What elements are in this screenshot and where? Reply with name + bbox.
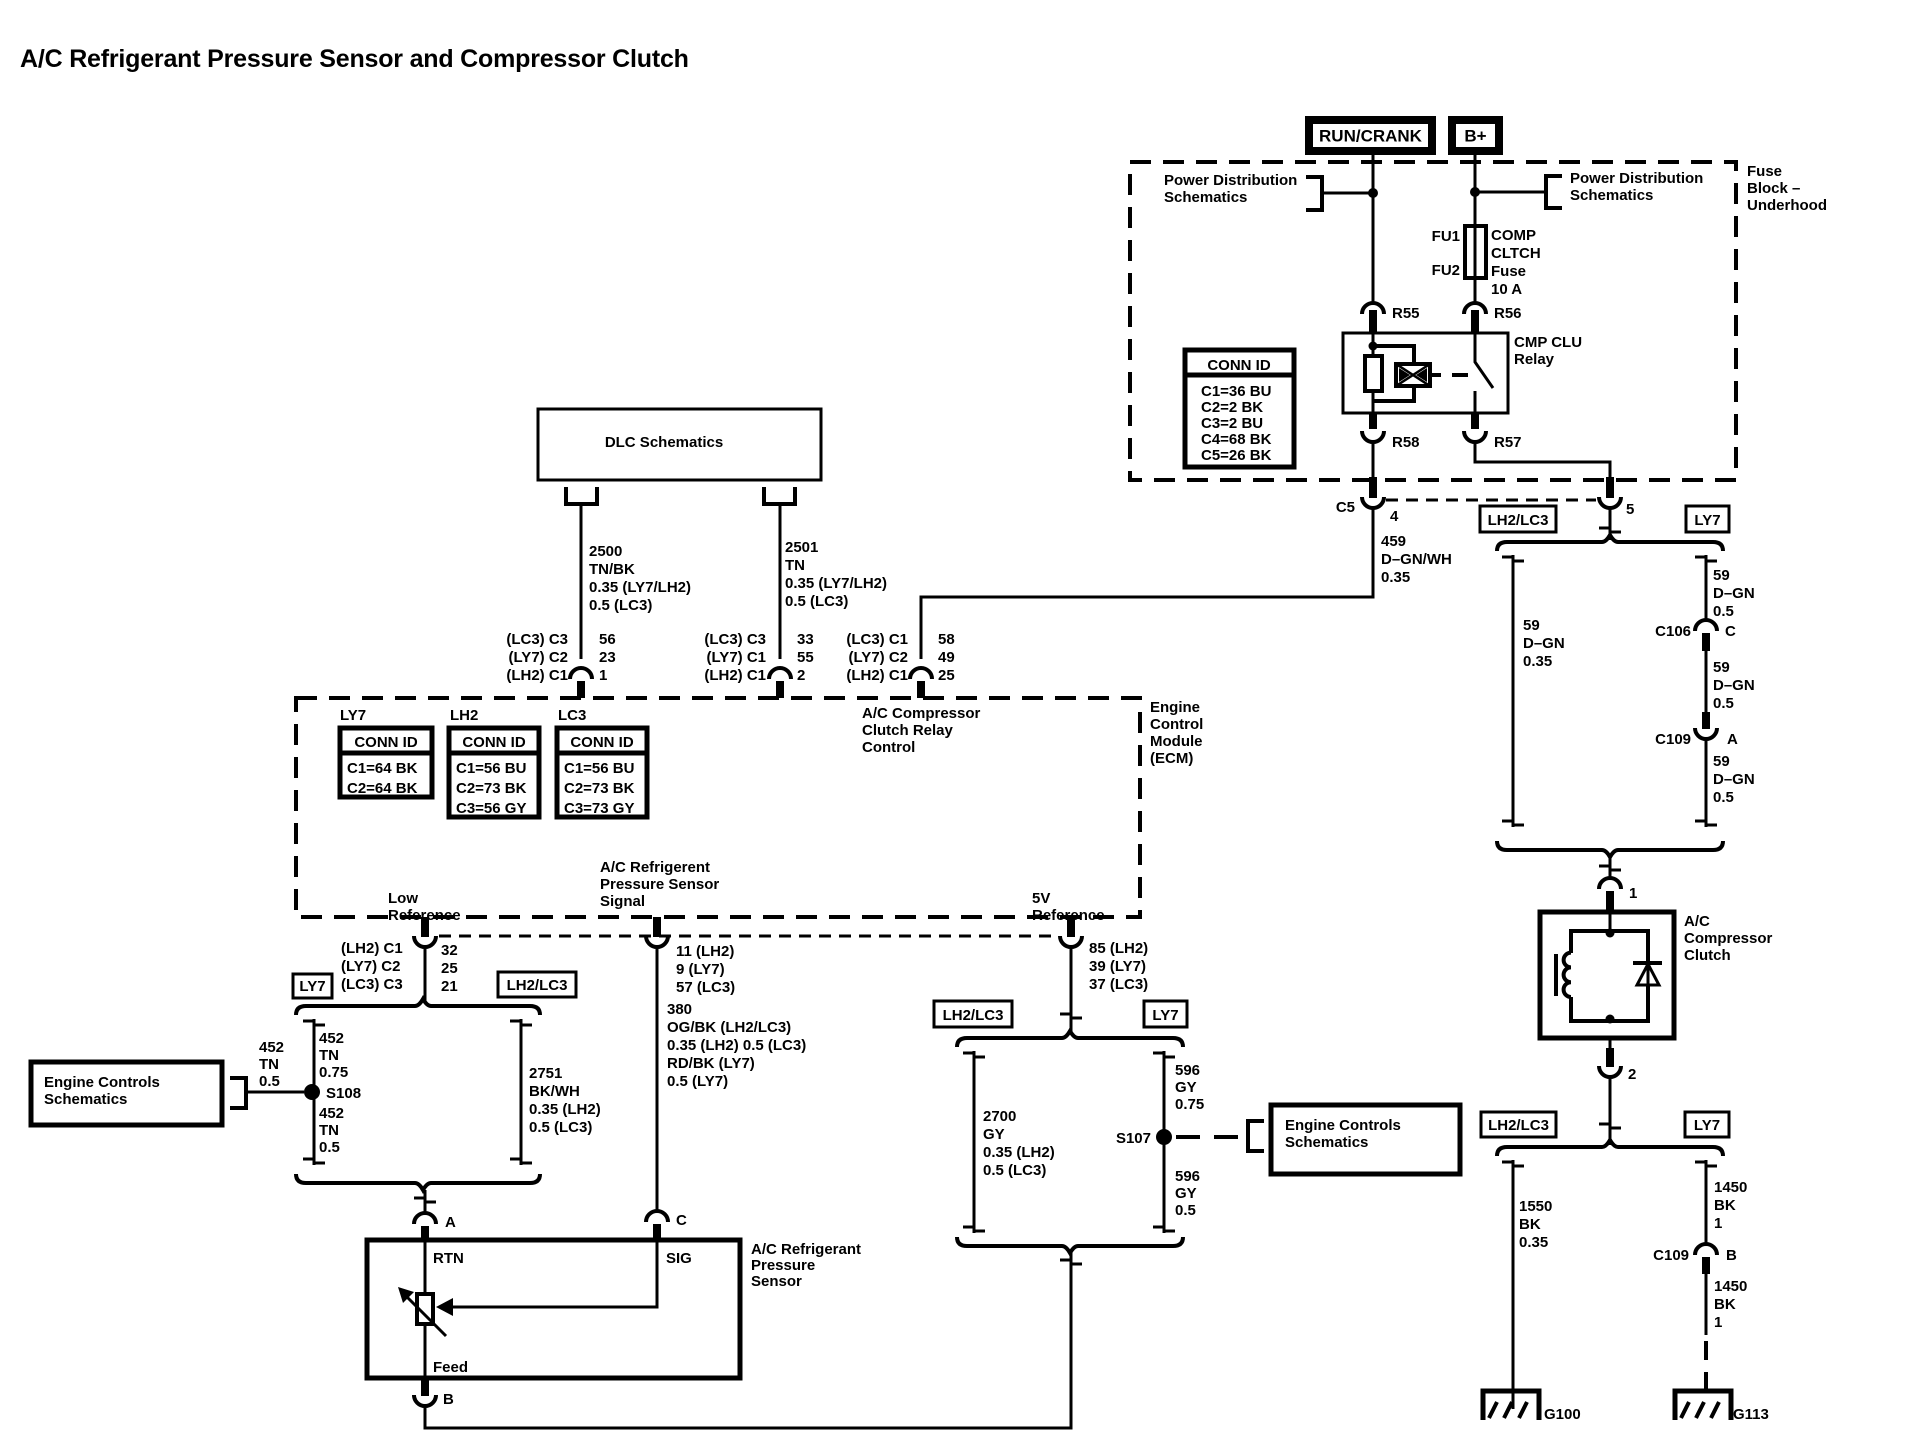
svg-text:Clutch Relay: Clutch Relay	[862, 722, 954, 739]
connector clutch pin 2	[1599, 1048, 1636, 1083]
CONN ID table LY7	[340, 728, 432, 797]
svg-text:D–GN: D–GN	[1713, 771, 1755, 788]
svg-text:Module: Module	[1150, 733, 1203, 750]
svg-text:BK/WH: BK/WH	[529, 1083, 580, 1100]
svg-text:C5=26 BK: C5=26 BK	[1201, 447, 1272, 464]
svg-text:596: 596	[1175, 1062, 1200, 1079]
svg-text:C106: C106	[1655, 623, 1691, 640]
svg-text:C109: C109	[1655, 731, 1691, 748]
label 59 D-GN 0.35	[1523, 617, 1565, 670]
label 1450 BK 1 (upper)	[1714, 1179, 1747, 1232]
svg-text:A/C Compressor: A/C Compressor	[862, 705, 981, 722]
wire 380 signal	[656, 947, 659, 1210]
svg-text:37 (LC3): 37 (LC3)	[1089, 976, 1148, 993]
svg-text:1550: 1550	[1519, 1198, 1552, 1215]
svg-text:Feed: Feed	[433, 1359, 468, 1376]
svg-text:RUN/CRANK: RUN/CRANK	[1319, 127, 1423, 146]
DLC Schematics box	[538, 409, 821, 480]
svg-text:1: 1	[1714, 1314, 1722, 1331]
label 596 GY 0.75	[1175, 1062, 1204, 1113]
squiggle below 2700 brace	[1060, 1260, 1082, 1264]
svg-text:21: 21	[441, 978, 458, 995]
connector C5 boundary dashed line	[1386, 499, 1596, 502]
wire RTN	[424, 1240, 427, 1294]
wire R58 to C5	[1372, 442, 1375, 477]
svg-text:LH2/LC3: LH2/LC3	[1488, 512, 1549, 529]
svg-text:C2=64 BK: C2=64 BK	[347, 780, 418, 797]
wire low ref to brace	[424, 947, 427, 1003]
label Power Distribution Schematics (left)	[1164, 172, 1297, 206]
svg-text:0.35 (LH2): 0.35 (LH2)	[983, 1144, 1055, 1161]
svg-text:A: A	[445, 1214, 456, 1231]
svg-text:2: 2	[1628, 1066, 1636, 1083]
svg-text:Control: Control	[862, 739, 915, 756]
svg-text:GY: GY	[1175, 1079, 1197, 1096]
svg-text:C5: C5	[1336, 499, 1355, 516]
connector R56	[1464, 303, 1522, 333]
svg-text:39 (LY7): 39 (LY7)	[1089, 958, 1146, 975]
svg-text:D–GN/WH: D–GN/WH	[1381, 551, 1452, 568]
junction on B+ feed	[1470, 187, 1480, 197]
svg-text:0.5 (LY7): 0.5 (LY7)	[667, 1073, 728, 1090]
svg-text:55: 55	[797, 649, 814, 666]
svg-text:(ECM): (ECM)	[1150, 750, 1193, 767]
ECM pin group 3 labels	[846, 631, 954, 684]
svg-text:DLC Schematics: DLC Schematics	[605, 434, 723, 451]
diode in clutch	[1633, 963, 1662, 985]
wire PDS-left to RUN/CRANK feed	[1322, 192, 1373, 195]
connector ECM pin 1	[570, 668, 592, 698]
wire 2751 BK/WH branch	[510, 1019, 532, 1165]
svg-text:1: 1	[1714, 1215, 1722, 1232]
svg-text:Signal: Signal	[600, 893, 645, 910]
label 452 TN 0.5 (left of splice)	[259, 1039, 284, 1090]
svg-text:5: 5	[1626, 501, 1634, 518]
resistor in relay	[1365, 356, 1382, 391]
svg-text:Schematics: Schematics	[1285, 1134, 1368, 1151]
connector clutch pin 1	[1599, 878, 1637, 912]
svg-text:C: C	[676, 1212, 687, 1229]
label 1450 BK 1 (lower)	[1714, 1278, 1747, 1331]
svg-text:0.5 (LC3): 0.5 (LC3)	[983, 1162, 1046, 1179]
label A/C Refrigerant Pressure Sensor	[751, 1241, 861, 1290]
relay coil-to-switch dashed link	[1432, 373, 1468, 377]
relay switch	[1475, 333, 1493, 413]
label Engine Control Module (ECM)	[1150, 699, 1203, 767]
junction relay coil top	[1369, 342, 1378, 351]
svg-text:C2=73 BK: C2=73 BK	[564, 780, 635, 797]
bracket to Power Distribution (right)	[1546, 176, 1562, 208]
wire Feed	[424, 1324, 427, 1378]
bracket DLC left tab	[566, 487, 597, 504]
svg-text:(LC3) C3: (LC3) C3	[341, 976, 403, 993]
svg-text:49: 49	[938, 649, 955, 666]
svg-text:2751: 2751	[529, 1065, 562, 1082]
label 459 D-GN/WH 0.35	[1381, 533, 1452, 586]
svg-text:1: 1	[599, 667, 607, 684]
ground G113	[1675, 1391, 1769, 1423]
svg-text:A: A	[1727, 731, 1738, 748]
wire pin5 to harness brace	[1609, 508, 1612, 540]
svg-text:GY: GY	[983, 1126, 1005, 1143]
svg-text:23: 23	[599, 649, 616, 666]
bracket Engine Controls (left)	[230, 1078, 246, 1108]
svg-text:BK: BK	[1519, 1216, 1541, 1233]
svg-text:C4=68 BK: C4=68 BK	[1201, 431, 1272, 448]
svg-text:OG/BK (LH2/LC3): OG/BK (LH2/LC3)	[667, 1019, 791, 1036]
label 452 TN 0.75	[319, 1030, 348, 1081]
svg-text:Low: Low	[388, 890, 418, 907]
svg-text:Schematics: Schematics	[1164, 189, 1247, 206]
svg-text:(LH2) C1: (LH2) C1	[341, 940, 403, 957]
wire 59 D-GN 0.5 (lower)	[1695, 739, 1717, 827]
label Fuse Block Underhood	[1747, 163, 1827, 214]
svg-text:2501: 2501	[785, 539, 818, 556]
CONN ID table (fuse block)	[1185, 350, 1294, 467]
label 2501 TN	[785, 539, 887, 610]
ECM dashed box	[296, 698, 1140, 917]
ground G100	[1483, 1391, 1581, 1423]
harness brace (2700 top)	[957, 1031, 1183, 1047]
svg-text:452: 452	[319, 1030, 344, 1047]
connector C5 pin 4	[1336, 477, 1399, 525]
node RUN/CRANK	[1305, 116, 1436, 155]
label 1550 BK 0.35	[1519, 1198, 1552, 1251]
svg-text:BK: BK	[1714, 1197, 1736, 1214]
svg-text:C1=56 BU: C1=56 BU	[456, 760, 526, 777]
sensor element (variable)	[398, 1287, 446, 1336]
svg-text:56: 56	[599, 631, 616, 648]
splice S107	[1116, 1129, 1172, 1147]
svg-text:2500: 2500	[589, 543, 622, 560]
svg-text:452: 452	[319, 1105, 344, 1122]
svg-text:452: 452	[259, 1039, 284, 1056]
svg-text:33: 33	[797, 631, 814, 648]
connector sensor pin B	[414, 1378, 454, 1408]
svg-text:459: 459	[1381, 533, 1406, 550]
svg-text:B+: B+	[1464, 127, 1486, 146]
svg-text:A/C Refrigerent: A/C Refrigerent	[600, 859, 710, 876]
harness brace (452 top)	[296, 999, 540, 1015]
svg-text:TN: TN	[785, 557, 805, 574]
label 452 TN 0.5 (below splice)	[319, 1105, 344, 1156]
net label LY7 (middle)	[1144, 1001, 1187, 1027]
svg-text:LC3: LC3	[558, 707, 586, 724]
svg-text:LY7: LY7	[1152, 1007, 1178, 1024]
svg-text:1450: 1450	[1714, 1278, 1747, 1295]
wire R57 elbow to pin5	[1475, 442, 1610, 477]
svg-text:Control: Control	[1150, 716, 1203, 733]
wire SIG with arrow to sensor	[436, 1240, 657, 1316]
wire 459 D-GN/WH	[921, 508, 1373, 659]
svg-text:BK: BK	[1714, 1296, 1736, 1313]
svg-text:R58: R58	[1392, 434, 1420, 451]
connector sensor pin A	[414, 1213, 456, 1240]
svg-text:32: 32	[441, 942, 458, 959]
connector R57	[1464, 413, 1522, 451]
svg-text:0.5: 0.5	[1175, 1202, 1196, 1219]
svg-text:C1=36 BU: C1=36 BU	[1201, 383, 1271, 400]
svg-text:LY7: LY7	[299, 978, 325, 995]
CONN ID table LC3	[557, 728, 647, 817]
svg-text:85 (LH2): 85 (LH2)	[1089, 940, 1148, 957]
clutch coil windings	[1564, 953, 1571, 997]
svg-text:A/C Refrigerant Pressure Senso: A/C Refrigerant Pressure Sensor and Comp…	[20, 45, 689, 73]
harness brace (right top)	[1497, 535, 1723, 551]
ECM pin group 2 labels	[704, 631, 813, 684]
svg-text:9 (LY7): 9 (LY7)	[676, 961, 725, 978]
clutch coil core bar	[1554, 954, 1558, 996]
svg-text:59: 59	[1523, 617, 1540, 634]
svg-text:CMP CLU: CMP CLU	[1514, 334, 1582, 351]
svg-text:A/C Refrigerant: A/C Refrigerant	[751, 1241, 861, 1258]
svg-text:FU2: FU2	[1432, 262, 1460, 279]
svg-text:S107: S107	[1116, 1130, 1151, 1147]
Engine Controls Schematics box (left)	[31, 1062, 222, 1125]
svg-text:0.35: 0.35	[1519, 1234, 1548, 1251]
Engine Controls Schematics box (right)	[1271, 1105, 1460, 1174]
wire 1450 BK 1 (upper)	[1695, 1160, 1717, 1244]
svg-text:CONN ID: CONN ID	[462, 734, 526, 751]
svg-text:TN: TN	[319, 1122, 339, 1139]
svg-text:Schematics: Schematics	[1570, 187, 1653, 204]
svg-text:C3=2 BU: C3=2 BU	[1201, 415, 1263, 432]
connector C109 pin B	[1653, 1244, 1737, 1274]
junction on RUN/CRANK feed	[1368, 188, 1378, 198]
svg-text:Engine Controls: Engine Controls	[44, 1074, 160, 1091]
svg-text:Compressor: Compressor	[1684, 930, 1773, 947]
net label LH2/LC3 (left)	[498, 972, 576, 997]
label 2700 GY	[983, 1108, 1055, 1179]
svg-text:(LH2) C1: (LH2) C1	[704, 667, 766, 684]
svg-text:LY7: LY7	[340, 707, 366, 724]
wire B+ vertical	[1474, 155, 1477, 303]
svg-text:59: 59	[1713, 753, 1730, 770]
svg-text:0.5: 0.5	[259, 1073, 280, 1090]
svg-text:0.5 (LC3): 0.5 (LC3)	[785, 593, 848, 610]
svg-text:R55: R55	[1392, 305, 1420, 322]
svg-text:C1=56 BU: C1=56 BU	[564, 760, 634, 777]
wire B+ to PDS-right	[1475, 191, 1546, 194]
svg-text:RD/BK (LY7): RD/BK (LY7)	[667, 1055, 755, 1072]
svg-text:(LH2) C1: (LH2) C1	[506, 667, 568, 684]
svg-text:596: 596	[1175, 1168, 1200, 1185]
connector ECM low reference pin	[414, 917, 436, 947]
svg-text:0.5: 0.5	[319, 1139, 340, 1156]
svg-text:(LH2) C1: (LH2) C1	[846, 667, 908, 684]
svg-text:(LY7) C2: (LY7) C2	[509, 649, 568, 666]
wire 59 D-GN 0.5 (LY7 upper)	[1695, 555, 1717, 620]
svg-text:LH2/LC3: LH2/LC3	[943, 1007, 1004, 1024]
connector R55	[1362, 303, 1420, 333]
svg-text:0.75: 0.75	[1175, 1096, 1204, 1113]
svg-text:0.5 (LC3): 0.5 (LC3)	[529, 1119, 592, 1136]
wire brace to sensor pin A	[414, 1190, 436, 1212]
harness brace (452 bottom)	[296, 1174, 540, 1190]
net label LH2/LC3 (upper)	[1480, 506, 1556, 532]
svg-text:LY7: LY7	[1694, 1117, 1720, 1134]
wire 1450 BK 1 (lower, part dashed)	[1705, 1274, 1708, 1335]
svg-text:59: 59	[1713, 659, 1730, 676]
svg-text:0.35: 0.35	[1523, 653, 1552, 670]
net label LH2/LC3 (middle)	[934, 1001, 1012, 1027]
svg-text:25: 25	[938, 667, 955, 684]
svg-text:C2=73 BK: C2=73 BK	[456, 780, 527, 797]
svg-text:(LC3) C3: (LC3) C3	[506, 631, 568, 648]
relay coil element (X box)	[1396, 364, 1430, 386]
fuse FU1/FU2 COMP CLTCH 10A	[1432, 226, 1541, 298]
bracket Engine Controls (right)	[1248, 1121, 1264, 1151]
A/C Compressor Clutch box	[1540, 912, 1674, 1038]
svg-text:S108: S108	[326, 1085, 361, 1102]
svg-text:Engine Controls: Engine Controls	[1285, 1117, 1401, 1134]
svg-text:57 (LC3): 57 (LC3)	[676, 979, 735, 996]
ECM low ref pin labels	[341, 940, 458, 995]
svg-text:(LY7) C2: (LY7) C2	[341, 958, 400, 975]
relay coil branch wire	[1372, 333, 1375, 413]
svg-text:SIG: SIG	[666, 1250, 692, 1267]
wire pin B to 2700 bundle	[425, 1253, 1071, 1428]
svg-text:C109: C109	[1653, 1247, 1689, 1264]
svg-text:R56: R56	[1494, 305, 1522, 322]
relay CMP CLU box	[1343, 333, 1508, 413]
svg-text:5V: 5V	[1032, 890, 1050, 907]
wire 1550 BK 0.35	[1502, 1160, 1524, 1409]
svg-text:R57: R57	[1494, 434, 1522, 451]
svg-text:(LY7) C2: (LY7) C2	[849, 649, 908, 666]
harness brace (2700 bottom)	[957, 1237, 1183, 1253]
svg-text:CONN ID: CONN ID	[354, 734, 418, 751]
svg-text:0.5: 0.5	[1713, 695, 1734, 712]
svg-text:Schematics: Schematics	[44, 1091, 127, 1108]
svg-text:380: 380	[667, 1001, 692, 1018]
svg-text:G113: G113	[1733, 1406, 1769, 1423]
label A/C Compressor Clutch	[1684, 913, 1773, 964]
clutch coil loop	[1571, 931, 1648, 1021]
connector ECM pin 25	[910, 668, 932, 698]
harness brace (right bottom)	[1497, 841, 1723, 857]
connector C106 pin C	[1655, 620, 1736, 651]
connector sensor pin C	[646, 1211, 687, 1240]
net label LH2/LC3 (lower right)	[1481, 1112, 1556, 1137]
svg-text:LH2/LC3: LH2/LC3	[507, 977, 568, 994]
svg-text:0.35 (LH2) 0.5 (LC3): 0.35 (LH2) 0.5 (LC3)	[667, 1037, 806, 1054]
svg-text:GY: GY	[1175, 1185, 1197, 1202]
wire bracket to S108	[246, 1091, 304, 1094]
svg-text:Power Distribution: Power Distribution	[1164, 172, 1297, 189]
net label LY7 (lower right)	[1685, 1112, 1729, 1137]
svg-text:(LC3) C1: (LC3) C1	[846, 631, 908, 648]
svg-text:Clutch: Clutch	[1684, 947, 1731, 964]
svg-text:TN: TN	[259, 1056, 279, 1073]
wire brace to clutch pin 1	[1599, 857, 1621, 877]
bracket to Power Distribution (left)	[1306, 177, 1322, 210]
svg-text:FU1: FU1	[1432, 228, 1460, 245]
connector ECM 5V reference pin	[1060, 917, 1082, 947]
label 596 GY 0.5	[1175, 1168, 1200, 1219]
svg-text:0.5: 0.5	[1713, 603, 1734, 620]
svg-text:TN/BK: TN/BK	[589, 561, 635, 578]
ECM 5V pin labels	[1089, 940, 1148, 993]
svg-text:Engine: Engine	[1150, 699, 1200, 716]
connector C5 pin 5	[1599, 477, 1634, 518]
svg-text:D–GN: D–GN	[1713, 677, 1755, 694]
label 2500 TN/BK	[589, 543, 691, 614]
svg-text:G100: G100	[1544, 1406, 1581, 1423]
svg-text:(LC3) C3: (LC3) C3	[704, 631, 766, 648]
label Low Reference	[388, 890, 461, 924]
A/C Refrigerant Pressure Sensor box	[367, 1240, 740, 1378]
dashed wire S107 to bracket	[1176, 1135, 1246, 1139]
svg-text:CONN ID: CONN ID	[1207, 357, 1271, 374]
wire pin 2 to harness brace	[1599, 1077, 1621, 1145]
svg-text:1450: 1450	[1714, 1179, 1747, 1196]
svg-text:0.35 (LY7/LH2): 0.35 (LY7/LH2)	[589, 579, 691, 596]
svg-text:C3=73 GY: C3=73 GY	[564, 800, 634, 817]
junction clutch top	[1606, 929, 1615, 938]
svg-text:C1=64 BK: C1=64 BK	[347, 760, 418, 777]
connector R58	[1362, 413, 1420, 451]
wire 596 GY branch	[1153, 1051, 1175, 1233]
svg-text:58: 58	[938, 631, 955, 648]
label 59 D-GN 0.5 (middle)	[1713, 659, 1755, 712]
svg-text:0.35: 0.35	[1381, 569, 1410, 586]
svg-text:RTN: RTN	[433, 1250, 464, 1267]
svg-text:Fuse: Fuse	[1747, 163, 1782, 180]
svg-text:Fuse: Fuse	[1491, 263, 1526, 280]
connector C109 pin A	[1655, 712, 1738, 748]
svg-text:2700: 2700	[983, 1108, 1016, 1125]
svg-text:B: B	[1726, 1247, 1737, 1264]
svg-text:Relay: Relay	[1514, 351, 1555, 368]
wire 452 TN left branch	[303, 1019, 325, 1165]
svg-text:Power Distribution: Power Distribution	[1570, 170, 1703, 187]
svg-text:LH2/LC3: LH2/LC3	[1488, 1117, 1549, 1134]
net label LY7 (left)	[293, 974, 332, 998]
svg-text:0.35 (LY7/LH2): 0.35 (LY7/LH2)	[785, 575, 887, 592]
ECM signal pin labels	[676, 943, 735, 996]
label A/C Compressor Clutch Relay Control	[862, 705, 981, 756]
svg-text:10 A: 10 A	[1491, 281, 1522, 298]
svg-text:0.35 (LH2): 0.35 (LH2)	[529, 1101, 601, 1118]
wire RUN/CRANK vertical	[1372, 155, 1375, 303]
svg-text:0.75: 0.75	[319, 1064, 348, 1081]
wire into clutch	[1609, 912, 1612, 931]
bracket DLC right tab	[764, 487, 795, 504]
svg-text:0.5 (LC3): 0.5 (LC3)	[589, 597, 652, 614]
svg-text:CONN ID: CONN ID	[570, 734, 634, 751]
label A/C Refrigerent Pressure Sensor Signal	[600, 859, 719, 910]
svg-text:CLTCH: CLTCH	[1491, 245, 1541, 262]
svg-text:LY7: LY7	[1694, 512, 1720, 529]
node B+	[1448, 116, 1503, 155]
fuse block underhood dashed box	[1130, 162, 1736, 480]
label 2751 BK/WH	[529, 1065, 601, 1136]
svg-text:0.5: 0.5	[1713, 789, 1734, 806]
label 380 OG/BK RD/BK	[667, 1001, 806, 1090]
junction clutch bottom	[1606, 1015, 1615, 1024]
wire 2501 TN	[779, 504, 782, 659]
ECM pin group 1 labels	[506, 631, 615, 684]
svg-text:Pressure Sensor: Pressure Sensor	[600, 876, 719, 893]
svg-text:C: C	[1725, 623, 1736, 640]
svg-text:D–GN: D–GN	[1523, 635, 1565, 652]
svg-text:Underhood: Underhood	[1747, 197, 1827, 214]
net label LY7 (upper)	[1686, 506, 1729, 532]
wire 59 D-GN 0.35 (LH2/LC3 branch)	[1502, 555, 1524, 827]
svg-text:(LY7) C1: (LY7) C1	[707, 649, 766, 666]
harness brace (ground split)	[1497, 1140, 1723, 1156]
